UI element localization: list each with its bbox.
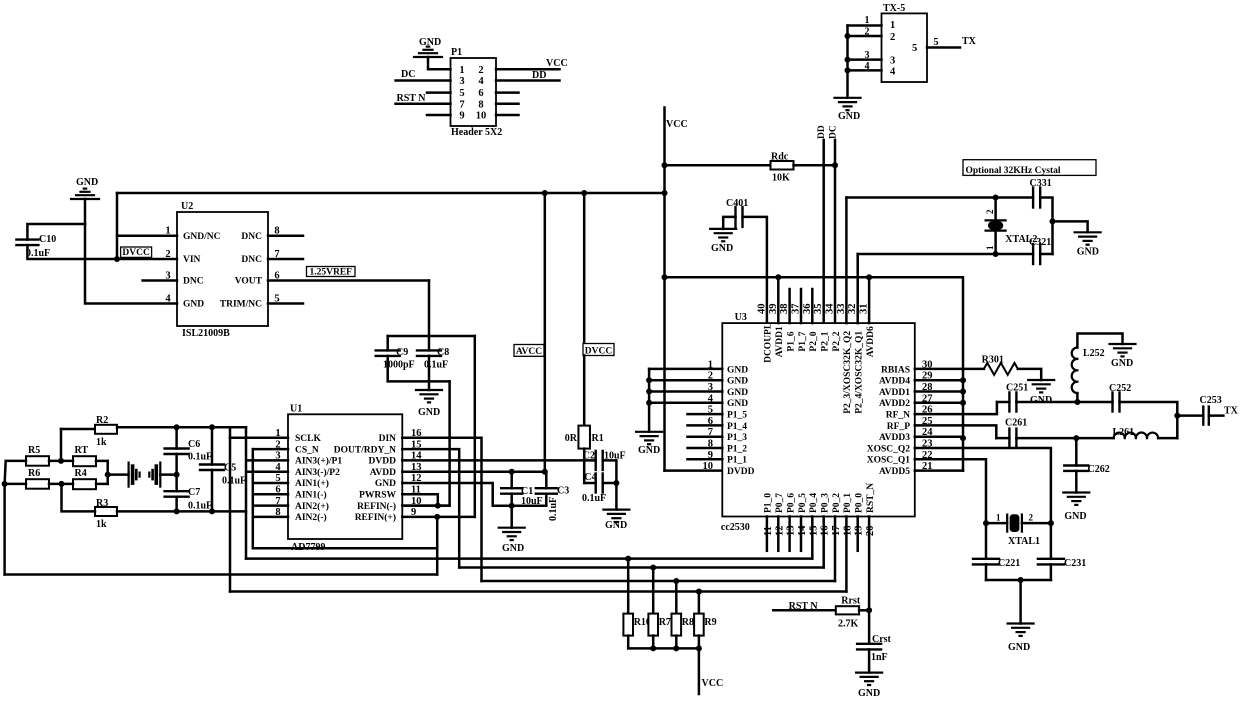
junction R4 row join bbox=[59, 481, 65, 487]
ground L252 GND symbol bbox=[1110, 344, 1136, 356]
wire TX-5 pin4 wire bbox=[848, 69, 882, 72]
wire U1 AIN2- wire bbox=[253, 516, 288, 519]
inductor L252 bbox=[1072, 348, 1078, 394]
svg-text:0R: 0R bbox=[565, 433, 578, 444]
wire AVDD rail bbox=[665, 277, 964, 470]
svg-text:GND: GND bbox=[638, 445, 660, 456]
junction rail-DVCC bbox=[581, 190, 587, 196]
svg-text:XTAL1: XTAL1 bbox=[1008, 536, 1040, 547]
svg-text:P0_0: P0_0 bbox=[855, 493, 865, 513]
svg-text:3: 3 bbox=[459, 76, 464, 87]
net label optional crystal note bbox=[963, 160, 1096, 177]
svg-text:3: 3 bbox=[890, 56, 895, 67]
svg-text:DOUT/RDY_N: DOUT/RDY_N bbox=[334, 445, 396, 455]
svg-text:AVDD1: AVDD1 bbox=[879, 388, 910, 398]
wire U3 pin18 stub bbox=[845, 517, 848, 592]
junction Rdc-DC join bbox=[832, 162, 838, 168]
ground Crst GND symbol bbox=[856, 673, 882, 685]
svg-text:1k: 1k bbox=[96, 519, 107, 530]
resistor R5 bbox=[26, 456, 49, 466]
connector TX-5 box bbox=[882, 13, 928, 82]
wire P1 pin1 from GND bbox=[428, 57, 451, 69]
svg-text:GND: GND bbox=[183, 300, 204, 310]
wire R10 bottom lead bbox=[627, 636, 630, 649]
wire RBIAS wire bbox=[915, 368, 984, 371]
svg-text:P0_1: P0_1 bbox=[843, 493, 853, 513]
junction TX tap bbox=[1174, 413, 1180, 419]
wire U1 AIN2+ wire bbox=[253, 504, 288, 507]
svg-text:P1: P1 bbox=[451, 47, 462, 58]
ground C2C4 GND symbol bbox=[603, 510, 629, 522]
wire xtal2 top lead bbox=[994, 198, 997, 221]
wire R6-R4 wire bbox=[49, 483, 73, 486]
resistor R6 bbox=[26, 479, 49, 489]
wire TX-5 ground bus bbox=[846, 26, 849, 98]
wire R8 bottom lead bbox=[675, 636, 678, 649]
svg-text:RST_N: RST_N bbox=[866, 483, 876, 513]
svg-text:P1_4: P1_4 bbox=[727, 422, 747, 432]
wire XOSC_Q2 route bbox=[915, 448, 1051, 523]
capacitor C221 bbox=[973, 559, 999, 565]
svg-text:RF_P: RF_P bbox=[887, 422, 910, 432]
wire U1 AVDD row bbox=[402, 470, 546, 473]
wire U3 pin19 stub bbox=[856, 517, 859, 551]
wire U2 pin8 stub bbox=[268, 234, 303, 237]
wire AVCC vertical bbox=[544, 193, 547, 472]
wire RF_P route bbox=[915, 425, 997, 438]
svg-text:C261: C261 bbox=[1005, 418, 1027, 429]
wire U3 pin8 stub bbox=[688, 447, 723, 450]
svg-text:GND: GND bbox=[605, 520, 627, 531]
wire TX wire left bbox=[1177, 414, 1203, 417]
svg-text:2: 2 bbox=[890, 32, 895, 43]
wire C9 top lead bbox=[386, 336, 389, 350]
svg-text:PWRSW: PWRSW bbox=[359, 491, 396, 501]
wire VREF to REFIN+ vertical bbox=[474, 336, 477, 517]
wire C10 top wire bbox=[27, 224, 85, 240]
svg-text:AVDD3: AVDD3 bbox=[879, 433, 910, 443]
capacitor C231 bbox=[1038, 559, 1064, 565]
wire U3 pin14 stub bbox=[800, 517, 803, 551]
wire C6-C7 mid leads bbox=[175, 454, 178, 491]
svg-text:DNC: DNC bbox=[241, 255, 262, 265]
svg-text:DD: DD bbox=[817, 125, 827, 139]
svg-text:8: 8 bbox=[478, 99, 483, 110]
wire C7 bottom lead bbox=[175, 497, 178, 512]
capacitor C6 bbox=[165, 449, 189, 455]
junction L5-R9 bbox=[696, 589, 702, 595]
svg-text:GND: GND bbox=[418, 407, 440, 418]
wire sensor to C6C7 mid bbox=[160, 473, 176, 476]
wire L252 top to gnd bbox=[1077, 334, 1122, 348]
wire U2 VOUT wire bbox=[268, 279, 429, 282]
svg-text:AVDD5: AVDD5 bbox=[879, 467, 910, 477]
junction TX-5 bus pin4 bbox=[845, 67, 851, 73]
wire VCC vertical bbox=[663, 108, 666, 471]
resistor R2 bbox=[95, 425, 117, 434]
junction gnd branch tap bbox=[1050, 218, 1056, 224]
wire Rdc left wire bbox=[665, 164, 771, 167]
wire C2 right down bbox=[603, 460, 617, 509]
junction REFINp branch bbox=[434, 514, 440, 520]
wire VCC drop bbox=[698, 648, 701, 694]
svg-text:AVCC: AVCC bbox=[516, 347, 542, 357]
svg-text:DVCC: DVCC bbox=[122, 248, 150, 258]
wire vertical rail to VIN bbox=[116, 193, 119, 259]
junction C6 top join bbox=[174, 424, 180, 430]
wire U3 pin12 stub bbox=[777, 517, 780, 551]
wire RF_N route bbox=[915, 402, 997, 414]
svg-text:GND: GND bbox=[1111, 358, 1133, 369]
svg-text:P0_5: P0_5 bbox=[798, 493, 808, 513]
wire pin28 wire bbox=[915, 390, 963, 393]
wire U2 pin4 gnd wire bbox=[85, 224, 177, 304]
svg-text:2: 2 bbox=[1029, 513, 1034, 523]
wire R1 bottom to C2/C4 bbox=[583, 449, 586, 483]
wire C3 top lead bbox=[545, 472, 548, 489]
svg-text:AVDD: AVDD bbox=[370, 468, 396, 478]
svg-text:RST N: RST N bbox=[397, 93, 427, 104]
ground P1 GND symbol bbox=[414, 47, 442, 57]
svg-text:P0_2: P0_2 bbox=[832, 493, 842, 513]
svg-text:0.1uF: 0.1uF bbox=[188, 452, 212, 463]
wire U3 gnd pin1 wire bbox=[649, 368, 722, 371]
net label AVCC label bbox=[514, 345, 544, 358]
wire XOSC_Q1 route bbox=[915, 459, 986, 523]
svg-text:P2_1: P2_1 bbox=[821, 331, 831, 351]
wire U1 DIN route bbox=[402, 438, 481, 581]
wire bus L4 bbox=[482, 580, 836, 583]
svg-text:GND: GND bbox=[838, 111, 860, 122]
wire rowA right corner bbox=[1120, 402, 1178, 438]
IC U3 box bbox=[722, 323, 915, 516]
svg-text:AIN2(-): AIN2(-) bbox=[295, 512, 327, 523]
wire C221 top lead bbox=[985, 523, 988, 559]
wire R3 left wire bbox=[62, 484, 96, 512]
wire P1 pin7 RST_N bbox=[396, 103, 451, 106]
capacitor C1 bbox=[501, 488, 522, 494]
junction TX-5 bus pin2 bbox=[845, 33, 851, 39]
wire U3 pin39 stub bbox=[777, 277, 780, 323]
inductor L261 bbox=[1114, 433, 1158, 439]
svg-text:4: 4 bbox=[890, 67, 896, 78]
junction rail R9 bbox=[696, 645, 702, 651]
wire U3 pin16 stub bbox=[822, 517, 825, 568]
junction left node join bbox=[2, 481, 8, 487]
wire U1 GND route bbox=[402, 483, 511, 506]
svg-text:AIN1(-): AIN1(-) bbox=[295, 490, 327, 501]
wire RT right wire bbox=[96, 460, 108, 463]
wire C6 top lead bbox=[175, 427, 178, 448]
svg-text:DVDD: DVDD bbox=[369, 457, 397, 467]
wire P1 pin5 stub bbox=[427, 91, 451, 94]
junction DVCC vert joins VIN bbox=[114, 256, 120, 262]
svg-text:2: 2 bbox=[985, 209, 995, 214]
svg-text:AIN2(+): AIN2(+) bbox=[295, 501, 329, 512]
IC U1 box bbox=[288, 414, 402, 539]
svg-text:P1_0: P1_0 bbox=[764, 493, 774, 513]
capacitor C7 bbox=[165, 491, 189, 497]
wire U1 DVDD row bbox=[402, 459, 584, 462]
net label DVCC near U2 bbox=[121, 247, 152, 258]
svg-text:C253: C253 bbox=[1200, 395, 1222, 406]
svg-text:P1_3: P1_3 bbox=[727, 433, 747, 443]
wire U3 pin37 stub bbox=[800, 289, 803, 323]
wire U3 pin32 riser bbox=[856, 254, 859, 323]
svg-text:AVDD4: AVDD4 bbox=[879, 377, 910, 387]
svg-text:16: 16 bbox=[820, 526, 831, 537]
wire C4 right bbox=[603, 482, 617, 485]
svg-text:1: 1 bbox=[985, 245, 995, 250]
junction gnd bus p2 bbox=[646, 377, 652, 383]
junction xtal1 right tap bbox=[1048, 520, 1054, 526]
wire U3 pin13 stub bbox=[788, 517, 791, 551]
svg-text:GND: GND bbox=[727, 365, 748, 375]
wire U1 AIN1+ wire bbox=[253, 482, 288, 485]
svg-text:R1: R1 bbox=[592, 433, 604, 444]
svg-text:10: 10 bbox=[476, 111, 487, 122]
wire RST_N wire bbox=[773, 609, 836, 612]
junction C5 top join bbox=[209, 424, 215, 430]
wire R9 top lead bbox=[698, 592, 701, 614]
wire C401 to DCOUPL bbox=[743, 217, 767, 323]
svg-text:GND: GND bbox=[1030, 395, 1052, 406]
svg-text:CS_N: CS_N bbox=[295, 445, 319, 455]
wire U1 CS_N wire bbox=[253, 448, 288, 451]
wire DVCC vertical bbox=[583, 193, 586, 344]
svg-text:VCC: VCC bbox=[546, 58, 568, 69]
ground R301 GND symbol bbox=[1028, 380, 1054, 392]
svg-text:P2_4/XOSC32K_Q1: P2_4/XOSC32K_Q1 bbox=[855, 331, 865, 414]
wire C8 bottom lead bbox=[428, 356, 431, 390]
wire C231 top lead bbox=[1050, 523, 1053, 559]
junction C7 bottom join bbox=[174, 508, 180, 514]
wire R2 to RT vert bbox=[60, 429, 63, 461]
wire xtal2 bottom row bbox=[858, 253, 1033, 256]
svg-text:5: 5 bbox=[459, 88, 464, 99]
svg-text:P0_3: P0_3 bbox=[821, 493, 831, 513]
resistor R9 bbox=[694, 614, 704, 636]
connector P1 header box bbox=[451, 58, 497, 126]
svg-text:2: 2 bbox=[478, 65, 483, 76]
IC U2 box bbox=[177, 212, 268, 326]
svg-text:P0_4: P0_4 bbox=[809, 493, 819, 513]
svg-text:P1_1: P1_1 bbox=[727, 456, 747, 466]
junction C262 tap bbox=[1073, 435, 1079, 441]
wire to C2 left bbox=[584, 459, 596, 462]
net label DVCC label bbox=[583, 344, 614, 357]
svg-text:VOUT: VOUT bbox=[235, 277, 263, 287]
wire C401 left to gnd bbox=[723, 217, 735, 229]
ground XTAL1 GND symbol bbox=[1008, 624, 1034, 636]
svg-text:AVDD2: AVDD2 bbox=[879, 399, 910, 409]
svg-text:DNC: DNC bbox=[241, 232, 262, 242]
wire U3 gnd bus bbox=[648, 369, 651, 432]
wire U3 pin36 stub bbox=[811, 289, 814, 323]
svg-text:C262: C262 bbox=[1088, 464, 1110, 475]
svg-text:12: 12 bbox=[774, 526, 785, 537]
capacitor Crst bbox=[857, 644, 881, 650]
ground C401 GND symbol bbox=[710, 229, 736, 241]
wire pin24 wire bbox=[915, 435, 963, 438]
wire rowB right bbox=[1158, 437, 1177, 440]
wire U3 pin38 stub bbox=[788, 289, 791, 323]
svg-text:DVCC: DVCC bbox=[585, 346, 613, 356]
svg-text:GND: GND bbox=[711, 243, 733, 254]
wire V1 bus bbox=[229, 427, 232, 591]
sensor element left bbox=[129, 463, 140, 487]
capacitor C251 bbox=[1009, 393, 1016, 412]
wire R6 left wire bbox=[5, 483, 26, 486]
wire xtal2 gnd branch bbox=[1053, 221, 1088, 232]
svg-text:VCC: VCC bbox=[666, 119, 688, 130]
wire xtal2 top row bbox=[846, 196, 1033, 199]
wire to sensor 1 bbox=[108, 473, 129, 476]
svg-text:Optional 32KHz Cystal: Optional 32KHz Cystal bbox=[966, 166, 1061, 176]
wire C5 bottom lead bbox=[211, 470, 214, 511]
junction C1 top join bbox=[509, 469, 515, 475]
junction L252-rowA bbox=[1074, 399, 1080, 405]
junction xtal2 top tap bbox=[993, 195, 999, 201]
svg-text:R7: R7 bbox=[659, 617, 671, 628]
ground XTAL2 GND symbol bbox=[1075, 232, 1101, 244]
wire U1 AIN3- wire bbox=[248, 470, 288, 473]
wire rowB left bbox=[996, 437, 1009, 440]
junction TX-5 bus pin3 bbox=[845, 57, 851, 63]
junction gnd bus p3 bbox=[646, 389, 652, 395]
wire U3 pin15 stub bbox=[811, 517, 814, 559]
wire U2 gnd vertical upper bbox=[84, 199, 87, 224]
wire DC vertical bbox=[834, 140, 837, 323]
svg-text:19: 19 bbox=[854, 526, 865, 537]
svg-text:VIN: VIN bbox=[183, 255, 201, 265]
svg-text:C6: C6 bbox=[188, 439, 200, 450]
ground U3 GND symbol bbox=[636, 432, 662, 444]
svg-text:GND: GND bbox=[502, 543, 524, 554]
wire U3 pin9 stub bbox=[688, 458, 723, 461]
svg-text:R2: R2 bbox=[96, 415, 108, 426]
svg-text:P2_0: P2_0 bbox=[809, 331, 819, 351]
svg-text:10: 10 bbox=[703, 461, 714, 472]
capacitor C3 bbox=[536, 488, 557, 494]
svg-text:P0_6: P0_6 bbox=[786, 493, 796, 513]
junction C6C7 mid join bbox=[174, 472, 180, 478]
svg-text:7: 7 bbox=[459, 99, 464, 110]
wire xtal1 gnd lead bbox=[1019, 580, 1022, 624]
svg-text:GND: GND bbox=[76, 177, 98, 188]
svg-text:14: 14 bbox=[797, 525, 808, 536]
junction C5 bottom join bbox=[209, 508, 215, 514]
junction gnd bus p4 bbox=[646, 400, 652, 406]
svg-text:XOSC_Q2: XOSC_Q2 bbox=[867, 444, 911, 454]
svg-text:TX: TX bbox=[962, 36, 977, 47]
junction xtal1 left tap bbox=[983, 520, 989, 526]
junction rail R8 bbox=[673, 645, 679, 651]
wire R4 right wire bbox=[96, 483, 108, 486]
wire U3 pin6 stub bbox=[688, 424, 723, 427]
capacitor C331 bbox=[1033, 188, 1040, 208]
wire TX-5 pin1 wire bbox=[848, 24, 882, 27]
wire pin27 wire bbox=[915, 402, 963, 405]
resistor RT bbox=[73, 456, 96, 466]
svg-text:1.25VREF: 1.25VREF bbox=[310, 267, 353, 277]
svg-text:GND: GND bbox=[727, 377, 748, 387]
junction C1 bottom join bbox=[509, 503, 515, 509]
wire U3 pin7 stub bbox=[688, 435, 723, 438]
svg-text:RBIAS: RBIAS bbox=[881, 365, 910, 375]
wire C262 top lead bbox=[1075, 438, 1078, 465]
capacitor C253 bbox=[1203, 407, 1209, 425]
resistor R301 bbox=[984, 363, 1018, 375]
junction L1-R10 bbox=[625, 556, 631, 562]
svg-text:P1_7: P1_7 bbox=[798, 331, 808, 351]
wire bus L2 bbox=[459, 566, 824, 569]
svg-text:P1_6: P1_6 bbox=[786, 331, 796, 351]
svg-text:17: 17 bbox=[831, 526, 842, 537]
svg-text:GND: GND bbox=[1077, 247, 1099, 258]
svg-text:P2_2: P2_2 bbox=[832, 331, 842, 351]
svg-text:RF_N: RF_N bbox=[886, 411, 910, 421]
svg-text:4: 4 bbox=[478, 76, 484, 87]
wire U3 pin31 stub bbox=[868, 277, 871, 323]
svg-text:U2: U2 bbox=[181, 201, 193, 212]
wire xtal2 bottom lead bbox=[994, 231, 997, 254]
svg-text:GND: GND bbox=[727, 399, 748, 409]
wire U1 REFINm row bbox=[402, 504, 449, 507]
capacitor C262 bbox=[1064, 466, 1088, 471]
wire bridge top rail bbox=[117, 426, 246, 429]
svg-text:C3: C3 bbox=[557, 486, 569, 497]
junction VCC-AVDD rail bbox=[662, 274, 668, 280]
svg-text:DC: DC bbox=[829, 125, 839, 139]
junction rail pin39 bbox=[775, 274, 781, 280]
svg-text:13: 13 bbox=[786, 526, 797, 537]
wire RT-R4 vert bbox=[106, 461, 109, 484]
svg-text:C4: C4 bbox=[584, 472, 596, 483]
capacitor C261 bbox=[1009, 429, 1016, 448]
wire V3 bus bbox=[245, 427, 248, 558]
svg-text:DC: DC bbox=[401, 69, 415, 80]
svg-text:C221: C221 bbox=[998, 558, 1020, 569]
wire pulldown rail bbox=[628, 647, 699, 650]
junction VCC-DVCC rail bbox=[662, 190, 668, 196]
svg-text:1: 1 bbox=[459, 65, 464, 76]
wire U3 pin20 stub bbox=[868, 517, 871, 644]
wire C5 top lead bbox=[211, 427, 214, 464]
svg-text:0.1uF: 0.1uF bbox=[548, 497, 559, 521]
svg-text:DCOUPL: DCOUPL bbox=[764, 323, 774, 363]
wire U3 DVDD wire bbox=[665, 469, 723, 472]
wire C10 bottom to U2 VIN bbox=[27, 245, 177, 259]
junction L4-R8 bbox=[673, 578, 679, 584]
wire VREF down to C8 node bbox=[428, 281, 431, 351]
resistor R4 bbox=[73, 479, 96, 489]
wire P1 pin10 stub bbox=[496, 114, 519, 117]
svg-text:AIN3(-)/P2: AIN3(-)/P2 bbox=[295, 467, 340, 478]
wire DD vertical bbox=[822, 140, 825, 323]
wire V2 bus to CS_N line bbox=[253, 449, 437, 548]
sensor element right bbox=[149, 463, 160, 487]
svg-text:10K: 10K bbox=[772, 173, 790, 184]
svg-text:GND: GND bbox=[1064, 511, 1086, 522]
svg-text:RT: RT bbox=[75, 445, 89, 456]
wire C262 bottom lead bbox=[1075, 471, 1078, 493]
capacitor C9 bbox=[376, 350, 400, 356]
svg-text:AIN3(+)/P1: AIN3(+)/P1 bbox=[295, 456, 342, 467]
resistor Rrst bbox=[836, 606, 859, 614]
junction VCC-Rdc bbox=[662, 162, 668, 168]
wire R7 top lead bbox=[652, 568, 655, 614]
